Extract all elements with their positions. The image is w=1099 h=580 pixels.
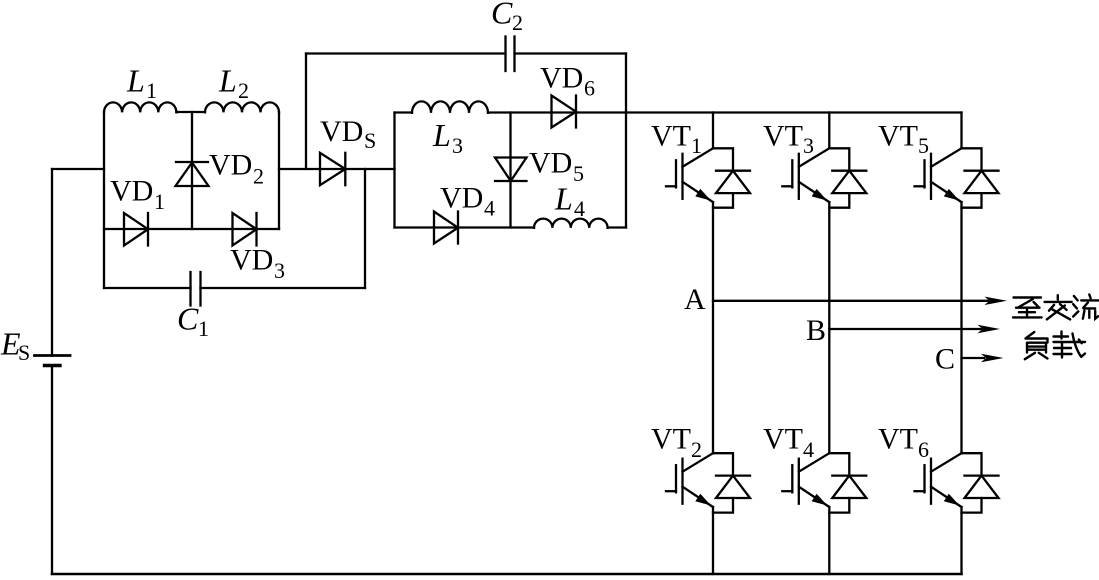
wire block1 left edge <box>103 112 105 288</box>
wire block1 mid vertical <box>191 112 193 229</box>
svg-text:C: C <box>177 301 199 337</box>
svg-text:2: 2 <box>253 164 264 189</box>
diode of VT6 <box>962 453 999 512</box>
transistor VT5 <box>915 148 962 202</box>
transistor VT6 <box>915 453 962 507</box>
svg-text:C: C <box>935 343 955 376</box>
svg-text:2: 2 <box>691 437 702 462</box>
wire C2 left riser <box>305 54 307 170</box>
wire bottom rail <box>52 573 962 576</box>
diode VD2 <box>176 162 209 186</box>
svg-text:2: 2 <box>512 10 523 35</box>
wire block2 bottom left <box>395 226 535 228</box>
wire between L1 and L2 <box>176 111 205 113</box>
arrow B <box>978 325 1001 333</box>
svg-text:VD: VD <box>320 115 363 148</box>
wire VD1 VD3 row <box>104 228 279 230</box>
svg-text:VD: VD <box>209 149 252 182</box>
wire leg1 mid <box>712 202 714 453</box>
svg-text:L: L <box>554 181 573 217</box>
inductor L1 <box>104 102 176 112</box>
svg-text:L: L <box>126 63 145 99</box>
transistor VT3 <box>782 148 829 202</box>
svg-text:2: 2 <box>238 78 249 103</box>
svg-text:3: 3 <box>452 133 463 158</box>
diode of VT1 <box>713 148 750 207</box>
wire C2 top left <box>306 52 506 54</box>
wire leg2 lower <box>828 507 830 574</box>
svg-text:VT: VT <box>651 120 691 153</box>
svg-text:VT: VT <box>651 423 691 456</box>
battery ES <box>35 356 71 366</box>
svg-text:VT: VT <box>763 120 803 153</box>
svg-text:L: L <box>218 63 237 99</box>
wire leg3 mid <box>960 202 962 453</box>
wire C2 top right <box>515 52 627 54</box>
wire main dc link <box>279 168 395 170</box>
svg-text:VD: VD <box>529 147 572 180</box>
wire block2 mid vertical <box>509 113 511 228</box>
diode VD1 <box>124 213 148 246</box>
svg-text:1: 1 <box>146 78 157 103</box>
wire L3 lead <box>395 111 413 113</box>
svg-text:S: S <box>364 128 376 153</box>
svg-text:VT: VT <box>878 423 918 456</box>
wire left top horizontal <box>52 168 104 170</box>
svg-text:6: 6 <box>918 437 929 462</box>
diode VD4 <box>434 212 458 244</box>
wire C2 right riser <box>625 54 627 228</box>
wire L3 to VD6 row <box>488 111 626 113</box>
wire leg2 mid <box>828 202 830 453</box>
svg-text:5: 5 <box>918 133 929 158</box>
svg-text:S: S <box>18 340 30 365</box>
diode of VT3 <box>829 148 866 207</box>
svg-text:VT: VT <box>878 120 918 153</box>
inductor L2 <box>205 102 279 112</box>
svg-text:VD: VD <box>110 175 153 208</box>
svg-text:1: 1 <box>154 189 165 214</box>
diode VD6 <box>552 96 577 128</box>
svg-text:1: 1 <box>691 133 702 158</box>
capacitor C2 <box>506 37 515 72</box>
svg-text:4: 4 <box>574 196 585 221</box>
wire block1 right edge <box>278 112 280 229</box>
text fu zai (load) <box>1025 332 1085 360</box>
transistor VT1 <box>666 148 713 202</box>
svg-text:6: 6 <box>584 76 595 101</box>
arrow C <box>981 354 1004 362</box>
inductor L3 <box>412 101 488 113</box>
svg-text:4: 4 <box>803 437 814 462</box>
wire C1 riser <box>364 169 366 288</box>
node B wire <box>829 328 981 330</box>
wire inverter top rail <box>626 111 962 113</box>
diode VD3 <box>233 213 257 246</box>
arrow A <box>985 297 1008 305</box>
node A wire <box>713 300 988 302</box>
svg-text:VD: VD <box>440 182 483 215</box>
diode of VT4 <box>829 453 866 512</box>
text zhi jiao liu (to AC) <box>1013 295 1099 320</box>
svg-text:B: B <box>806 314 826 347</box>
wire leg1 lower <box>712 507 714 574</box>
node C wire <box>962 357 985 359</box>
transistor VT2 <box>666 453 713 507</box>
wire left vertical upper <box>51 169 53 356</box>
svg-text:5: 5 <box>573 161 584 186</box>
wire block1 bottom left <box>104 287 191 289</box>
svg-text:VT: VT <box>763 423 803 456</box>
diode of VT2 <box>713 453 750 512</box>
wire leg2 upper <box>828 113 830 149</box>
wire block2 left edge <box>393 113 395 228</box>
wire leg1 upper <box>712 113 714 149</box>
svg-text:3: 3 <box>274 258 285 283</box>
wire leg3 upper <box>960 113 962 149</box>
diode VD5 <box>495 158 527 182</box>
wire leg3 lower <box>960 507 962 574</box>
wire left vertical lower <box>51 366 53 575</box>
svg-text:VD: VD <box>230 244 273 277</box>
capacitor C1 <box>191 272 201 306</box>
transistor VT4 <box>782 453 829 507</box>
svg-text:C: C <box>491 0 513 31</box>
diode of VT5 <box>962 148 999 207</box>
wire block1 bottom right <box>201 287 366 289</box>
svg-text:VD: VD <box>540 62 583 95</box>
svg-text:A: A <box>684 283 706 316</box>
svg-text:L: L <box>432 117 451 153</box>
svg-text:4: 4 <box>484 196 495 221</box>
wire block2 bottom right <box>608 226 626 228</box>
svg-text:3: 3 <box>803 133 814 158</box>
svg-text:1: 1 <box>198 316 209 341</box>
diode VDS <box>320 153 345 185</box>
inductor L4 <box>534 219 608 228</box>
